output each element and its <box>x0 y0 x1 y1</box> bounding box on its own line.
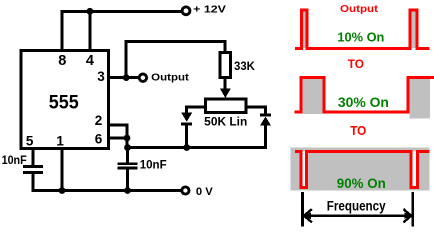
junction dot diode D1 bottom <box>183 144 190 151</box>
wiper arrow head onto potentiometer <box>220 89 231 99</box>
waveform 2 output trace 30% duty <box>295 77 434 112</box>
diode D2 cathode bar <box>260 114 271 117</box>
junction dot pin4/+12V rail <box>87 8 94 15</box>
waveform 3 output trace 90% duty <box>295 152 430 188</box>
diode D2 anode lead down to bottom wire <box>128 126 266 148</box>
svg-text:3: 3 <box>97 69 105 84</box>
waveform 1 gray fill right pulse <box>410 9 417 48</box>
svg-text:30% On: 30% On <box>338 95 389 111</box>
0V terminal <box>182 187 189 194</box>
svg-text:10% On: 10% On <box>337 31 384 45</box>
capacitor C2 top lead <box>126 148 129 163</box>
svg-text:1: 1 <box>56 134 64 149</box>
wire pin 3 to output terminal <box>110 76 139 79</box>
svg-text:2: 2 <box>95 113 103 128</box>
svg-text:4: 4 <box>86 53 94 69</box>
frequency left boundary bar <box>301 192 304 227</box>
svg-text:+ 12V: + 12V <box>193 4 226 16</box>
+12V supply terminal <box>182 7 190 15</box>
svg-text:8: 8 <box>58 53 66 69</box>
waveform 3 white slot left notch <box>301 152 307 188</box>
waveform 1 output trace 10% duty <box>295 10 430 48</box>
wire pin 1 down to 0V rail <box>61 149 64 191</box>
svg-text:10nF: 10nF <box>140 158 167 172</box>
junction dot pin 6 <box>124 135 131 142</box>
wire pin 5 down to capacitor C1 <box>32 149 35 165</box>
svg-text:Output: Output <box>151 72 189 84</box>
diode D1 triangle (anode top, pointing down) <box>181 113 192 122</box>
frequency right boundary bar <box>411 192 414 227</box>
wire pin 2 jog to pin 6 <box>110 125 127 138</box>
svg-text:0 V: 0 V <box>196 186 214 198</box>
wire pot left terminal to diode D1 <box>187 107 204 113</box>
wire pin 4 to +12V rail <box>88 11 91 49</box>
wire pin 6 <box>110 137 129 140</box>
waveform 2 gray fill left pulse <box>303 79 323 115</box>
capacitor C2 bottom plate <box>118 167 138 170</box>
wire pot right terminal to diode D2 <box>248 107 266 114</box>
frequency arrow head left <box>304 209 312 222</box>
diode D1 cathode lead down <box>185 124 188 148</box>
svg-text:555: 555 <box>49 91 79 113</box>
waveform 2 gray fill right pulse <box>410 79 431 119</box>
svg-text:Frequency: Frequency <box>327 198 386 214</box>
capacitor C1 bottom lead to 0V rail <box>33 174 181 191</box>
capacitor C2 top plate <box>118 162 138 165</box>
resistor R1 33K body <box>220 52 231 77</box>
svg-text:Output: Output <box>340 3 379 15</box>
svg-text:50K Lin: 50K Lin <box>204 116 247 129</box>
svg-text:90% On: 90% On <box>337 176 386 192</box>
junction dot timing node <box>124 144 131 151</box>
svg-text:TO: TO <box>350 123 366 138</box>
frequency arrow head right <box>403 209 411 222</box>
junction dot capacitor C2 on 0V rail <box>124 187 131 194</box>
potentiometer VR1 body <box>205 99 246 112</box>
junction dot pin 1 on 0V rail <box>59 187 66 194</box>
wire pin 6 down to timing node <box>126 138 129 149</box>
svg-text:10nF: 10nF <box>2 153 27 167</box>
waveform 3 white slot right notch <box>411 152 418 188</box>
diode D2 triangle (pointing up) <box>260 117 271 126</box>
svg-text:TO: TO <box>348 57 365 71</box>
capacitor C2 bottom lead <box>126 169 129 190</box>
junction dot on pin 3 wire <box>123 74 130 81</box>
capacitor C1 top plate <box>23 165 43 168</box>
wire R1 bottom to wiper arrow <box>223 79 226 90</box>
output terminal <box>139 74 146 81</box>
capacitor C1 bottom plate <box>23 171 43 174</box>
svg-text:6: 6 <box>95 132 103 147</box>
waveform 3 gray fill block <box>291 148 430 191</box>
svg-text:33K: 33K <box>234 59 255 73</box>
diode D1 cathode bar <box>181 123 192 126</box>
svg-text:5: 5 <box>26 134 34 149</box>
waveform 1 gray fill left pulse <box>301 9 307 48</box>
wire pin3 junction up and right to resistor R1 <box>126 42 225 78</box>
wire pin 8 to +12V rail <box>62 11 181 49</box>
frequency double arrow line <box>304 214 411 217</box>
555 timer IC U1 body <box>21 50 108 148</box>
